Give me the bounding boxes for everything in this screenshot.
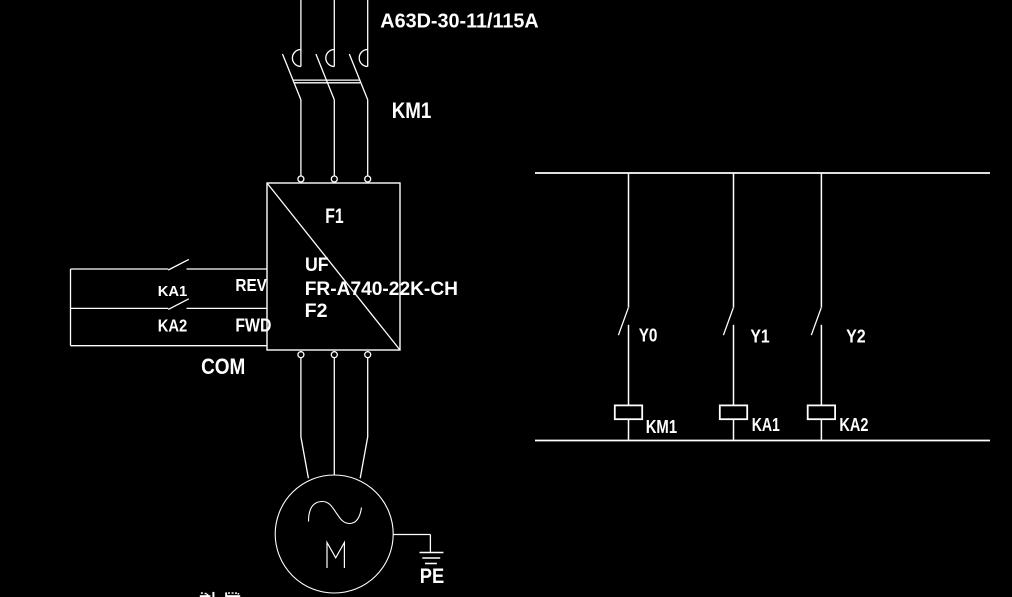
wire L2 top: [333, 0, 335, 67]
ladder top rail: [535, 172, 990, 174]
FWD wire left segment: [71, 307, 169, 309]
svg-text:F2: F2: [305, 300, 328, 322]
svg-text:KA2: KA2: [839, 414, 868, 435]
wire L3 top: [367, 0, 369, 67]
FWD wire right segment: [187, 307, 268, 309]
contact KA2 blade: [168, 299, 189, 310]
motor M letter: [327, 543, 344, 569]
svg-text:KA1: KA1: [752, 414, 780, 435]
rung Y1 upper wire: [733, 173, 735, 308]
partial CJK caption glyph 1 bottom bar: [200, 595, 211, 597]
rung Y2 wire to rail: [820, 419, 822, 440]
REV wire right segment: [187, 268, 268, 270]
rung Y2 lower wire: [820, 325, 822, 406]
terminal S top circle: [331, 176, 337, 182]
svg-text:REV: REV: [235, 275, 267, 295]
ground bar 2: [422, 557, 440, 559]
svg-text:PE: PE: [420, 565, 444, 588]
ladder bottom rail: [535, 440, 990, 442]
terminal W bottom circle: [365, 352, 371, 358]
wire U to motor: [301, 358, 309, 479]
partial CJK caption glyph 1 vertical tick: [212, 592, 214, 597]
svg-text:UF: UF: [305, 255, 329, 276]
breaker QF tie bar: [294, 80, 361, 83]
terminal T top circle: [365, 176, 371, 182]
wire V to motor: [333, 358, 335, 476]
breaker QF pole 2 blade: [316, 54, 334, 100]
wire L1 top: [300, 0, 302, 67]
motor sine symbol: [309, 502, 362, 524]
svg-text:F1: F1: [325, 205, 344, 228]
svg-text:KA1: KA1: [158, 283, 188, 300]
svg-text:KA2: KA2: [158, 316, 188, 336]
control left vertical wire: [70, 269, 72, 346]
coil KM1: [615, 405, 642, 419]
rung Y1 lower wire: [733, 325, 735, 406]
inverter UF box: [267, 183, 400, 350]
ground bar 1: [420, 552, 444, 554]
svg-text:KM1: KM1: [646, 416, 677, 437]
inverter diagonal: [267, 183, 400, 350]
PE wire horizontal: [393, 534, 430, 536]
contact Y2 blade: [811, 308, 821, 335]
svg-text:Y2: Y2: [846, 325, 866, 346]
partial CJK caption glyph 2 dots: [228, 592, 230, 593]
terminal R top circle: [298, 176, 304, 182]
breaker QF pole 1 blade: [283, 54, 301, 100]
rung Y0 upper wire: [628, 173, 630, 308]
svg-text:KM1: KM1: [392, 98, 432, 123]
svg-text:Y1: Y1: [750, 325, 769, 346]
wire L3 to inverter: [367, 100, 369, 176]
COM wire: [71, 345, 268, 347]
breaker QF pole 1 arc: [292, 50, 301, 67]
wire L2 to inverter: [333, 100, 335, 176]
svg-text:FR-A740-22K-CH: FR-A740-22K-CH: [305, 278, 458, 300]
breaker QF pole 3 arc: [359, 50, 368, 67]
motor M circle: [275, 475, 393, 593]
breaker QF pole 2 arc: [326, 50, 335, 67]
coil KA1: [720, 405, 747, 419]
partial CJK caption glyph 2 bottom bar: [227, 595, 241, 597]
rung Y0 wire to rail: [628, 419, 630, 440]
contact Y1 blade: [723, 308, 733, 335]
contact Y0 blade: [618, 308, 628, 335]
rung Y2 upper wire: [820, 173, 822, 308]
partial CJK caption glyph 1 dots: [201, 592, 203, 594]
rung Y0 lower wire: [628, 325, 630, 406]
breaker QF pole 3 blade: [349, 54, 367, 100]
PE wire vertical: [429, 535, 431, 553]
coil KA2: [808, 405, 835, 419]
rung Y1 wire to rail: [733, 419, 735, 440]
svg-text:Y0: Y0: [639, 325, 658, 346]
ground bar 3: [425, 563, 437, 565]
wire W to motor: [360, 358, 368, 479]
partial CJK caption glyph 2 left tick: [225, 592, 227, 597]
terminal U bottom circle: [298, 352, 304, 358]
REV wire left segment: [71, 268, 169, 270]
svg-text:FWD: FWD: [235, 316, 271, 336]
wire L1 to inverter: [300, 100, 302, 176]
contact KA1 blade: [168, 259, 189, 270]
svg-text:A63D-30-11/115A: A63D-30-11/115A: [380, 10, 539, 33]
svg-text:COM: COM: [201, 354, 245, 379]
terminal V bottom circle: [331, 352, 337, 358]
